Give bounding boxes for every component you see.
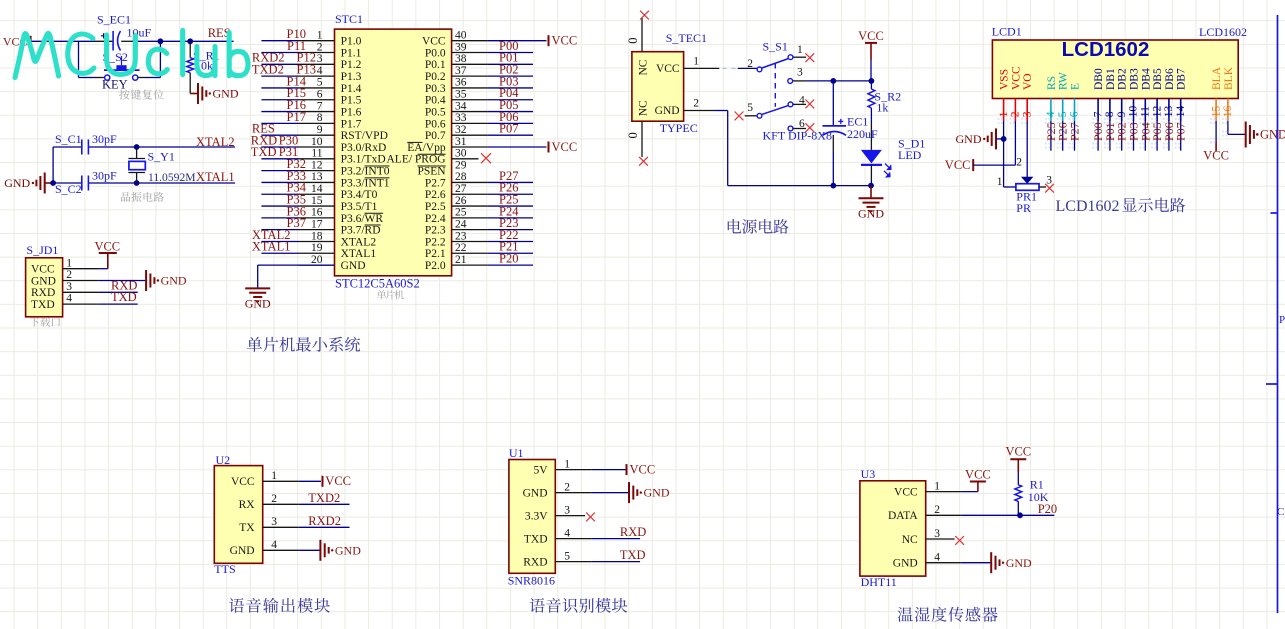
LCD1 pin 4 (RS) [1045,76,1058,124]
svg-text:VCC: VCC [858,29,884,43]
STC1 pin 12 (P3.2/INT0) [261,157,389,178]
STC1 pin 21 (P2.0) [425,251,533,272]
LCD pin3 wire to wiper [1016,121,1033,184]
svg-text:TXD: TXD [251,145,277,159]
STC1 pin 39 (P0.0) [425,39,533,60]
svg-text:LED: LED [898,148,922,162]
STC1 pin 13 (P3.3/INT1) [261,169,389,190]
svg-text:4: 4 [934,552,940,564]
svg-text:C: C [1277,506,1284,518]
svg-text:P0.2: P0.2 [425,71,446,83]
S_S1 pin 5 contact [735,102,762,120]
svg-text:GND: GND [245,297,271,311]
U2 pin name TX [239,522,255,534]
U3 pin name DATA [888,510,918,522]
svg-text:9: 9 [317,124,323,136]
svg-text:DHT11: DHT11 [861,575,897,589]
svg-text:1: 1 [998,111,1010,117]
net label XTAL1 [196,170,235,184]
LCD1 pin 15 (BLA) [1210,66,1223,123]
svg-text:P2.7: P2.7 [425,177,446,189]
svg-text:GND: GND [213,87,239,101]
ground GND (power circuit) [858,186,884,221]
S_TEC1 pin 2 (GND) [655,98,728,118]
svg-text:0: 0 [626,132,640,138]
module U3 body [860,467,926,589]
S_JD1 pin 4 net TXD [63,290,138,305]
svg-text:TX: TX [239,522,255,534]
ground GND (crystal) [4,173,53,194]
svg-text:22: 22 [455,242,467,254]
svg-text:S_TEC1: S_TEC1 [666,31,707,45]
U1 pin 4 net RXD [555,525,646,539]
S_JD1 pin name GND [31,275,56,287]
connector S_JD1 body [26,243,63,317]
svg-text:10: 10 [1128,105,1140,117]
svg-text:9: 9 [1116,111,1128,117]
svg-text:XTAL2: XTAL2 [341,236,377,248]
svg-text:10: 10 [311,136,323,148]
svg-text:28: 28 [455,171,467,183]
svg-text:4: 4 [271,539,277,551]
STC1 pin 26 (P2.5) [425,192,533,213]
svg-text:TYPEC: TYPEC [660,121,698,135]
U3 pin name VCC [894,486,918,498]
LCD1 pin 1 (VSS) [998,69,1011,124]
svg-text:20: 20 [311,254,323,266]
svg-text:19: 19 [311,242,323,254]
wire XTAL1 branch [53,182,235,184]
STC1 pin 14 (P3.4/T0) [261,181,377,202]
svg-text:2: 2 [317,41,323,53]
U2 pin 4 to GND [263,539,362,561]
svg-text:26: 26 [455,195,467,207]
svg-text:2: 2 [66,269,72,281]
svg-text:4: 4 [66,293,72,305]
connector S_TEC1 body [632,31,707,135]
STC1 pin 9 (RST/VPD) [252,122,388,143]
text 单片机 [377,290,404,299]
svg-text:DB6: DB6 [1164,68,1176,90]
svg-text:XTAL2: XTAL2 [196,135,235,149]
STC1 pin 29 (PSEN) [417,159,466,177]
title 电源电路 [728,219,789,234]
svg-text:13: 13 [1163,105,1175,117]
svg-text:P07: P07 [499,122,518,136]
svg-text:1: 1 [797,44,803,56]
svg-text:VO: VO [1022,73,1034,90]
svg-text:P2.0: P2.0 [425,260,446,272]
STC1 pin 5 (P1.4) [261,74,361,95]
svg-text:VCC: VCC [552,140,578,154]
LCD1 pin 6 (E) [1069,83,1082,124]
svg-text:36: 36 [455,77,467,89]
title 单片机最小系统 [247,337,360,352]
STC1 pin 38 (P0.1) [425,51,533,72]
LCD1 pin 16 (BLK) [1222,66,1235,123]
svg-text:11: 11 [311,148,322,160]
svg-text:1: 1 [271,470,277,482]
svg-text:15: 15 [311,195,323,207]
svg-text:GND: GND [31,275,56,287]
svg-text:3: 3 [66,281,72,293]
svg-text:7: 7 [1092,111,1104,117]
LCD pin16 to GND [1222,121,1285,148]
S_JD1 pin 1 wire to VCC [63,239,121,269]
STC1 pin 16 (P3.6/WR) [261,204,383,225]
svg-text:14: 14 [311,183,323,195]
svg-text:E: E [1070,83,1082,90]
svg-text:1: 1 [317,30,323,42]
svg-text:DB7: DB7 [1176,68,1188,90]
capacitor S_C2 30pF [55,169,117,196]
LCD net label P02 [1115,121,1129,151]
svg-text:NC: NC [638,59,650,75]
svg-text:NC: NC [902,534,918,546]
wire GND rail [728,111,871,186]
svg-text:P3.5/T1: P3.5/T1 [341,201,378,213]
power port VCC (reset circuit) [3,35,31,49]
svg-text:DB3: DB3 [1129,68,1141,90]
S_S1 pin 1 contact [788,44,814,62]
junction node crystal left [50,180,56,186]
svg-text:GND: GND [523,487,548,499]
STC1 pin 37 (P0.2) [425,63,533,84]
text 下载口 [30,317,60,327]
LCD pin2 wire [1014,121,1016,165]
svg-text:4: 4 [1045,111,1057,117]
STC1 pin 19 (XTAL1) [252,240,376,261]
S_TEC1 pin 0 top (NC) [626,11,649,52]
LCD1 pin 5 (RW) [1057,72,1070,124]
svg-text:P3.4/T0: P3.4/T0 [341,189,378,201]
svg-text:2: 2 [564,481,570,493]
U1 pin name 3.3V [525,510,548,522]
svg-text:DB0: DB0 [1093,68,1105,90]
svg-text:VCC: VCC [1005,444,1031,458]
svg-text:13: 13 [311,171,323,183]
svg-text:1: 1 [66,257,72,269]
LCD net label P04 [1138,121,1152,151]
LCD1 pin 2 (VCC) [1009,66,1022,124]
STC1 pin 2 (P1.1) [261,39,361,60]
STC1 pin 32 (P0.7) [425,122,533,143]
svg-text:14: 14 [1175,105,1187,117]
svg-text:GND: GND [4,176,30,190]
STC1 pin 34 (P0.5) [425,98,533,119]
LCD1 pin 11 (DB4) [1139,68,1152,124]
STC1 pin 4 (P1.3) [252,63,362,84]
LCD net label P26 [1056,121,1070,151]
svg-text:1k: 1k [876,101,888,115]
svg-text:GND: GND [655,105,680,117]
svg-text:38: 38 [455,53,467,65]
svg-text:LCD1602: LCD1602 [1199,25,1247,39]
U1 pin name TXD [524,533,548,545]
U3 pin name GND [893,558,918,570]
U1 pin 5 net TXD [555,548,645,562]
LCD1 pin 10 (DB3) [1128,68,1141,124]
svg-text:VCC: VCC [552,34,578,48]
svg-text:1: 1 [934,480,940,492]
LCD1 pin 9 (DB2) [1116,68,1129,124]
S_S1 pin 3 wire [788,67,872,84]
S_S1 pin 4 contact [788,94,814,108]
title 语音输出模块 [229,598,330,613]
svg-text:S_S1: S_S1 [763,40,788,54]
svg-text:GND: GND [161,274,187,288]
svg-text:P0.4: P0.4 [425,95,446,107]
svg-text:XTAL1: XTAL1 [196,170,235,184]
U3 pin 1 to VCC [926,468,991,493]
svg-text:30pF: 30pF [92,169,117,183]
svg-text:P3.7/RD: P3.7/RD [341,225,381,237]
svg-text:GND: GND [1006,556,1032,570]
S_S1 dashed gang line [774,63,776,107]
svg-text:P1.1: P1.1 [341,47,362,59]
svg-text:S_JD1: S_JD1 [26,243,58,257]
svg-text:3: 3 [564,504,570,516]
svg-text:4: 4 [317,65,323,77]
svg-text:SNR8016: SNR8016 [508,573,555,587]
U2 pin name VCC [231,476,255,488]
svg-text:RXD: RXD [31,287,55,299]
STC1 pin 20 (GND) [299,254,366,272]
net label XTAL2 [196,135,235,149]
svg-text:GND: GND [341,260,366,272]
svg-text:DB4: DB4 [1140,68,1152,90]
svg-text:P0.0: P0.0 [425,47,446,59]
svg-text:RXD: RXD [620,525,646,539]
svg-text:12: 12 [311,159,323,171]
svg-text:2: 2 [934,504,940,516]
wire VCC to RES net [31,40,234,42]
svg-text:P0.1: P0.1 [425,59,446,71]
svg-text:7: 7 [317,100,323,112]
svg-text:33: 33 [455,112,467,124]
S_S1 lever 2-1 [762,59,789,69]
svg-text:18: 18 [311,230,323,242]
svg-text:30: 30 [455,148,467,160]
svg-text:GND: GND [956,132,982,146]
svg-text:RST/VPD: RST/VPD [341,130,388,142]
LCD pin1 wire to PR1 [997,121,1016,188]
svg-text:RS: RS [1046,76,1058,90]
svg-text:32: 32 [455,124,467,136]
STC1 pin 24 (P2.3) [425,216,533,237]
STC1 pin 1 (P1.0) [261,27,361,48]
S_TEC1 pin 0 bottom (NC) [626,121,648,166]
U2 pin 3 net RXD2 [263,514,350,528]
STC1 pin 3 (P1.2) [252,51,362,72]
svg-text:U1: U1 [509,446,524,460]
svg-text:U2: U2 [216,453,231,467]
svg-text:5: 5 [317,77,323,89]
potentiometer PR1 [1016,175,1054,215]
crystal S_Y1 11.0592M [128,147,195,184]
svg-text:KEY: KEY [102,78,128,92]
svg-text:P2.2: P2.2 [425,236,446,248]
svg-text:KFT DIP-8X8: KFT DIP-8X8 [763,129,832,143]
svg-text:P0.3: P0.3 [425,83,446,95]
svg-text:VCC: VCC [94,239,120,253]
svg-text:TXD2: TXD2 [308,491,340,505]
svg-text:1: 1 [564,458,570,470]
svg-text:RX: RX [239,499,256,511]
svg-text:P2.6: P2.6 [425,189,446,201]
svg-text:16: 16 [311,207,323,219]
LCD net label P00 [1091,121,1105,151]
push button S_S2 (KEY) [94,50,147,91]
svg-text:P17: P17 [287,110,306,124]
svg-text:1: 1 [997,176,1003,188]
svg-text:DB2: DB2 [1117,68,1129,90]
wire loop for button S_S2 [79,41,161,77]
svg-text:31: 31 [455,136,467,148]
svg-text:DB1: DB1 [1105,68,1117,90]
svg-text:6: 6 [317,89,323,101]
svg-text:STC1: STC1 [335,12,363,26]
svg-text:XTAL1: XTAL1 [252,240,291,254]
svg-text:VCC: VCC [231,476,255,488]
svg-text:P1.3: P1.3 [341,71,362,83]
LCD1 pin 3 (VO) [1021,73,1034,123]
svg-text:ALE/ PROG: ALE/ PROG [386,154,445,166]
STC1 pin 23 (P2.2) [425,228,533,249]
svg-text:37: 37 [455,65,467,77]
svg-text:P20: P20 [1038,502,1057,516]
svg-text:P0.7: P0.7 [425,130,446,142]
svg-text:12: 12 [1151,105,1163,117]
svg-text:DB5: DB5 [1152,68,1164,90]
STC1 pin 40 (VCC) [422,30,577,48]
svg-text:5V: 5V [533,464,548,476]
svg-text:25: 25 [455,207,467,219]
S_JD1 pin name RXD [31,287,55,299]
svg-text:VCC: VCC [1203,149,1229,163]
STC1 pin 33 (P0.6) [425,110,533,130]
svg-text:P2.1: P2.1 [425,248,446,260]
svg-text:220uF: 220uF [847,127,878,141]
module U1 body [508,446,556,587]
svg-text:P20: P20 [499,251,518,265]
svg-text:TXD: TXD [620,548,646,562]
U2 pin 2 net TXD2 [263,491,350,505]
U3 pin 2 net P20 [926,502,1057,518]
STC1 pin 30 (ALE/ PROG) [386,148,491,166]
svg-text:23: 23 [455,230,467,242]
svg-text:XTAL1: XTAL1 [341,248,377,260]
svg-text:VCC: VCC [31,264,55,276]
resistor S_R1 [187,41,220,93]
svg-text:17: 17 [311,218,323,230]
svg-text:P1.7: P1.7 [341,118,362,130]
clipped component right edge [1266,15,1285,613]
resistor S_R2 1k [868,81,901,150]
S_JD1 pin 2 wire to GND [63,269,187,291]
STC1 pin 15 (P3.5/T1) [261,192,377,213]
svg-text:P3.2/INT0: P3.2/INT0 [341,166,390,178]
svg-text:NC: NC [638,100,650,116]
svg-text:2: 2 [747,58,753,70]
svg-text:8: 8 [1104,111,1116,117]
S_S1 pin 2 contact [747,58,762,72]
text 按键复位 [119,89,164,99]
junction dots pin3 rail [830,78,874,84]
svg-text:PR: PR [1016,201,1031,215]
U1 pin name RXD [523,556,547,568]
svg-text:S_Y1: S_Y1 [148,150,175,164]
STC1 pin 36 (P0.3) [425,74,533,95]
svg-text:P1.2: P1.2 [341,59,362,71]
LCD net label P05 [1150,121,1164,151]
svg-text:VSS: VSS [999,69,1011,90]
svg-text:P: P [1279,314,1285,326]
svg-text:2: 2 [271,493,277,505]
wire XTAL2 branch [53,147,235,183]
STC1 pin 10 (P3.0/RxD) [251,133,387,154]
svg-text:2: 2 [1016,157,1022,169]
switch S_S1 label [763,40,832,143]
svg-text:3: 3 [934,528,940,540]
svg-text:10K: 10K [1028,490,1049,504]
svg-text:P1.6: P1.6 [341,106,362,118]
svg-text:3: 3 [797,67,803,79]
svg-text:11: 11 [1140,106,1152,117]
LCD net label P25 [1044,121,1058,151]
LCD1 pin 13 (DB6) [1163,68,1176,124]
svg-text:VCC: VCC [656,63,680,75]
svg-text:TTS: TTS [214,562,235,576]
svg-text:8: 8 [317,112,323,124]
svg-text:VCC: VCC [894,486,918,498]
capacitor S_EC1 [97,13,152,51]
LCD1 pin 12 (DB5) [1151,68,1164,124]
S_S1 lever 5-4 [762,105,789,114]
svg-text:LCD1602: LCD1602 [1056,198,1120,215]
U3 pin name NC [902,534,918,546]
STC1 pin 17 (P3.7/RD) [261,216,380,237]
U1 pin 2 to GND [555,481,670,503]
svg-text:P3.0/RxD: P3.0/RxD [341,142,387,154]
svg-text:U3: U3 [861,467,876,481]
LED S_D1 [861,137,925,186]
svg-text:VCC: VCC [630,463,656,477]
svg-text:GND: GND [893,558,918,570]
STC1 pin 35 (P0.4) [425,86,533,107]
STC1 pin 28 (P2.7) [425,169,533,190]
U3 pin 4 to GND [926,552,1032,574]
LCD1 pin 7 (DB0) [1092,68,1105,124]
svg-text:30pF: 30pF [92,132,117,146]
svg-text:S_C1: S_C1 [55,132,82,146]
svg-text:P2.3: P2.3 [425,225,446,237]
svg-text:40: 40 [455,30,467,42]
svg-text:27: 27 [455,183,467,195]
STC1 pin 20 wire to ground [258,265,335,288]
junction dots crystal [134,144,140,186]
svg-text:GND: GND [644,486,670,500]
svg-text:GND: GND [335,543,361,557]
svg-text:LCD1: LCD1 [992,25,1022,39]
ground GND (MCU) [245,288,271,310]
capacitor EC1 220uF [823,81,879,186]
STC1 pin 11 (P3.1/TxD) [251,145,386,166]
svg-text:P1.5: P1.5 [341,95,362,107]
svg-text:6: 6 [1069,111,1081,117]
logo MCUclub [15,30,248,77]
U2 pin name GND [230,545,255,557]
